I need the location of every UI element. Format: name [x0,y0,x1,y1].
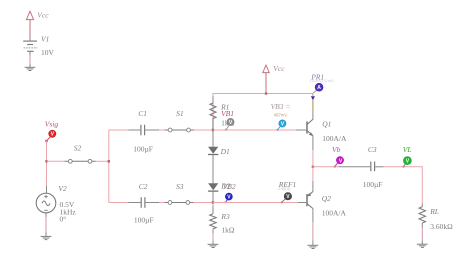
svg-text:D1: D1 [220,147,230,156]
svg-text:100A/A: 100A/A [322,209,347,218]
junction (left rail / S2 row) [108,160,110,162]
wire C3 to RL [384,167,423,204]
ground (below battery V1) [25,67,36,70]
ground (below Q2) [308,245,319,248]
svg-text:100µF: 100µF [363,180,383,189]
svg-text:S1: S1 [176,109,184,118]
probe Vb (magenta voltage probe) [332,145,344,168]
wire C2 to S3 [159,202,164,204]
ground (below RL) [417,244,428,247]
wire S1 to node VB1 [194,129,213,131]
svg-text:VB1: VB1 [221,109,234,118]
wire V2 negative to ground [45,213,47,237]
svg-text:C3: C3 [368,145,377,154]
ground (below R3) [208,244,219,247]
svg-text:R3: R3 [220,212,230,221]
resistor RL [419,204,453,245]
svg-text:3.60kΩ: 3.60kΩ [430,222,453,231]
svg-text:C2: C2 [139,182,148,191]
junction (Vcc arrow on rail) [265,92,267,94]
battery V1 [23,35,54,57]
wire left rail corner to C2 [109,202,128,204]
svg-text:S3: S3 [176,182,184,191]
probe VB1 (grey voltage probe) [221,109,234,131]
svg-text:V1: V1 [41,35,49,44]
resistor R3 [210,203,235,245]
junction node VB1 (R1/D1/base wire) [212,129,214,131]
transistor Q2 (PNP) [307,181,346,222]
switch S3 (closed) [165,182,194,204]
svg-text:S2: S2 [74,144,82,153]
wire (olive net) PR1 to Q1 collector [312,100,314,113]
wire C1 to S1 [159,129,165,131]
node Vsig attach [45,140,47,142]
probe VB2 (blue voltage probe) [220,182,236,204]
svg-text:Vsig: Vsig [45,120,59,129]
resistor R1 [210,96,235,130]
svg-text:A: A [317,85,321,91]
switch S2 (closed) [65,144,96,164]
svg-text:100µF: 100µF [134,216,154,225]
svg-text:Q2: Q2 [322,194,331,203]
wire battery V1 negative to ground [29,51,31,67]
power symbol Vcc (on top rail) [263,64,285,94]
wire Q2 collector to ground [312,222,314,245]
wire S3 to node REF [193,202,213,204]
svg-text:D2: D2 [220,182,230,191]
probe REF1 (dark voltage probe) [278,180,297,203]
diode D1 [208,130,230,183]
svg-text:VL: VL [403,145,412,154]
svg-text:4.61mA(4.61mA): 4.61mA(4.61mA) [310,79,334,83]
diode D2 [208,183,218,202]
switch S1 (closed) [165,109,195,132]
wire node VB1 to Q1 base [213,129,296,131]
wire left vertical rail [108,130,110,203]
ground (below V2) [41,236,52,239]
capacitor C1 [128,109,159,153]
probe VB3 (cyan voltage probe with value) [271,102,291,131]
svg-text:Vb: Vb [332,145,341,154]
wire Q1 emitter to node Vb [312,150,314,167]
svg-text:100A/A: 100A/A [322,134,347,143]
svg-text:C1: C1 [138,109,147,118]
probe VL (green voltage probe) [403,145,412,168]
svg-text:Vcc: Vcc [37,11,49,20]
svg-text:100µF: 100µF [133,144,153,153]
svg-text:Q1: Q1 [322,120,331,129]
svg-text:VB3 =: VB3 = [271,102,291,111]
svg-text:0°: 0° [60,214,67,223]
svg-text:1kΩ: 1kΩ [221,225,235,234]
AC source V2 [36,184,76,223]
junction (Vsig column / S2 row) [45,160,47,162]
wire top Vcc rail [213,94,313,131]
capacitor C2 [128,182,159,225]
wire junction to switch S2 [47,160,65,162]
probe Vsig (red voltage probe) [45,120,59,141]
power symbol Vcc (top-left, at battery V1 positive) [26,11,49,41]
wire Vsig node down to V2 [46,141,48,186]
svg-text:0 V(0 V): 0 V(0 V) [279,187,291,191]
wire node REF to Q2 base [213,202,298,204]
wire node Vb to C3 [313,166,339,168]
capacitor C3 [363,145,384,189]
wire S2 to left vertical rail [96,160,109,162]
svg-text:Vcc: Vcc [273,64,285,73]
svg-text:10V: 10V [41,48,55,57]
transistor Q1 (NPN) [307,113,347,151]
junction node REF (D2/R3/base wire) [212,201,214,203]
svg-text:V2: V2 [58,184,67,193]
junction node Vb (Q1 emitter / Q2 emitter / C3) [312,166,314,168]
current direction arrow of PR1 [311,96,315,100]
probe PR1 (violet current probe) [310,73,334,94]
svg-text:487mV: 487mV [274,113,287,118]
wire left rail to C1 [109,129,128,131]
svg-text:RL: RL [429,207,439,216]
wire node Vb down to Q2 emitter [312,167,314,181]
